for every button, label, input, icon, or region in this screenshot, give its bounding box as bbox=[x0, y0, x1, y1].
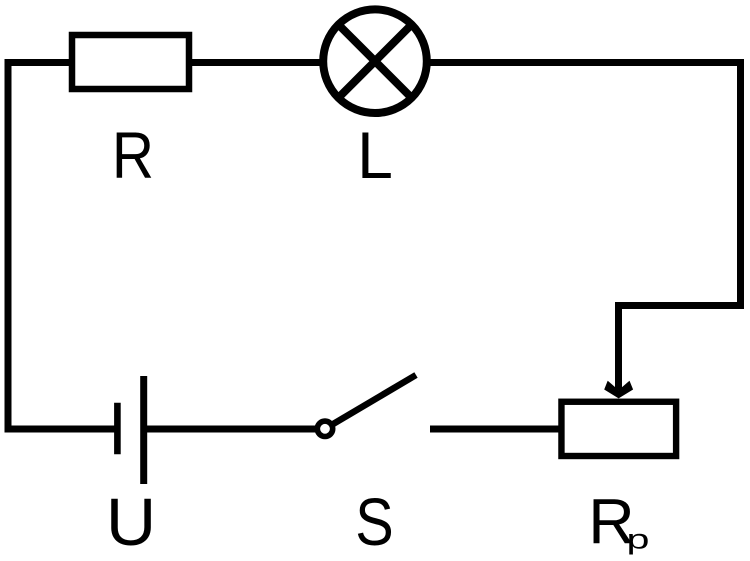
svg-text:L: L bbox=[357, 118, 393, 192]
label L bbox=[357, 118, 393, 192]
svg-text:R: R bbox=[112, 118, 154, 192]
wiper arrowhead bbox=[604, 381, 633, 399]
switch S lever bbox=[325, 375, 416, 429]
label R bbox=[112, 118, 154, 192]
svg-text:S: S bbox=[355, 485, 393, 560]
label S bbox=[355, 485, 393, 560]
wire bottom-left segment bbox=[8, 426, 117, 433]
wire main loop: left rail, top rail, right rail, jog to wiper shaft bbox=[8, 63, 741, 430]
svg-text:p: p bbox=[627, 524, 650, 555]
lamp L cross stroke 1 bbox=[338, 25, 411, 98]
switch S pivot circle bbox=[317, 421, 332, 436]
wire switch to rheostat bbox=[430, 426, 560, 433]
lamp L circle bbox=[323, 9, 427, 113]
svg-text:U: U bbox=[106, 485, 156, 559]
lamp L cross stroke 2 bbox=[338, 25, 411, 98]
resistor R body bbox=[72, 35, 189, 89]
battery U long plate bbox=[140, 376, 147, 484]
wire battery to switch bbox=[144, 426, 316, 433]
label Rp subscript p bbox=[627, 524, 650, 555]
label Rp main R bbox=[588, 486, 634, 558]
battery U short plate bbox=[114, 403, 121, 455]
rheostat Rp body bbox=[561, 402, 676, 456]
label U bbox=[106, 485, 156, 559]
